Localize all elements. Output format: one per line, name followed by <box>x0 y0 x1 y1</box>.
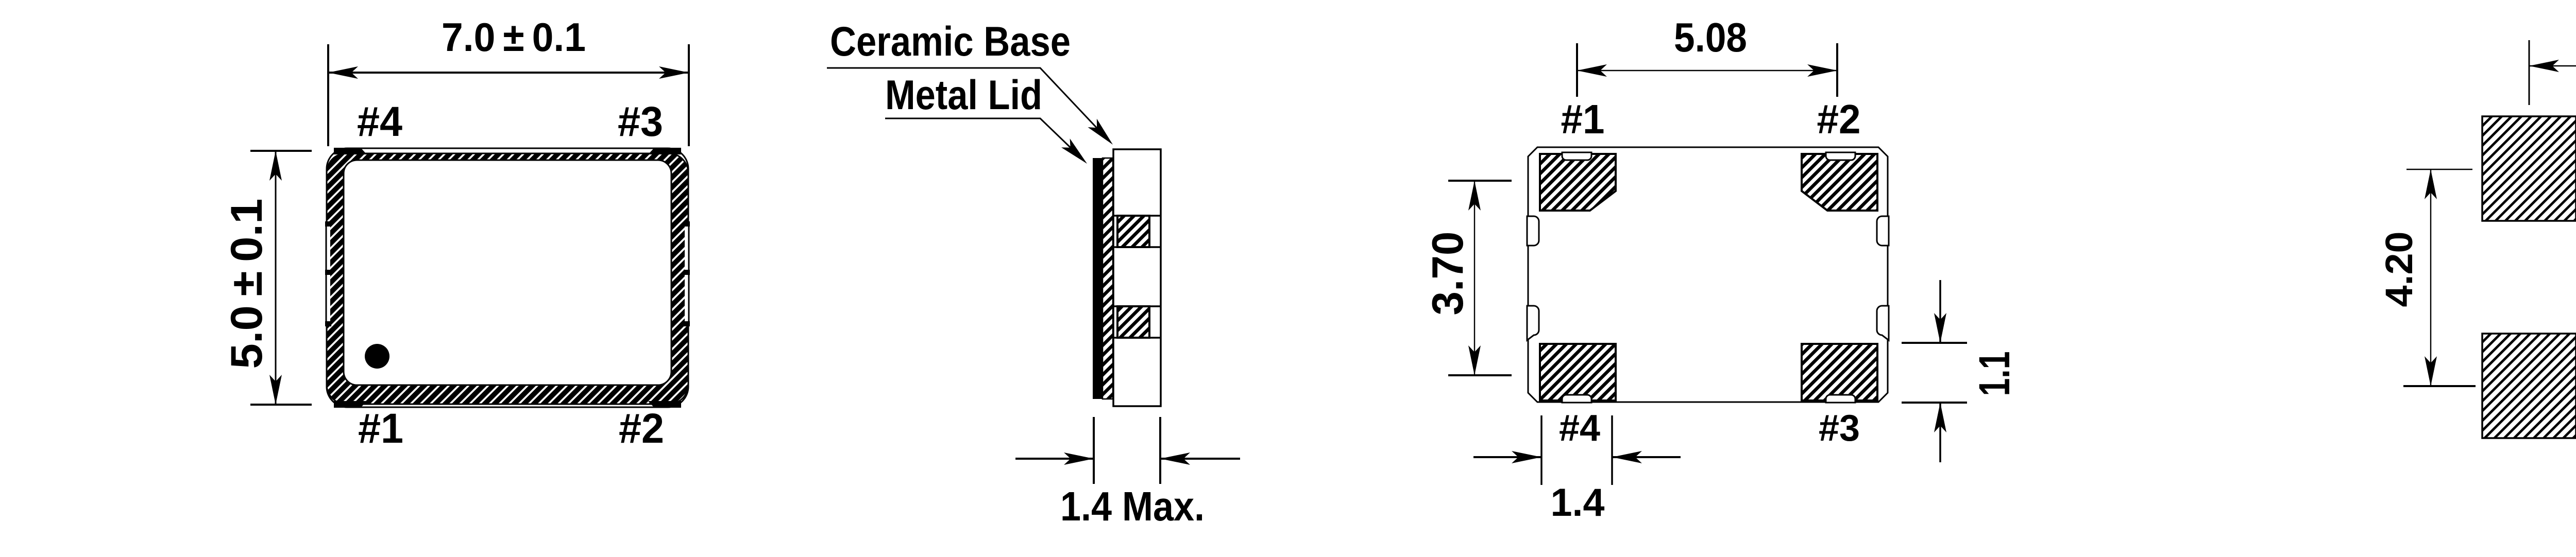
svg-text:4.20: 4.20 <box>2378 232 2420 307</box>
metallized lid border band (hatched) <box>327 153 688 404</box>
dimension 5.0±0.1 extension tick top <box>250 150 312 152</box>
right edge castellation recess <box>685 227 691 321</box>
dimension 5.08 line <box>1577 70 1837 71</box>
dimension 4.20 extension tick bottom <box>2403 385 2476 387</box>
right edge castellation notch upper <box>1877 216 1889 246</box>
dimension 7.0±0.1 extension line right <box>688 44 690 146</box>
svg-text:#4: #4 <box>1559 408 1600 449</box>
svg-text:#2: #2 <box>1817 96 1861 142</box>
left edge castellation notch lower <box>1527 306 1539 340</box>
package body outline (bottom view) <box>1528 147 1888 402</box>
lid seam ear, bottom-right corner <box>648 401 681 408</box>
svg-text:5.08: 5.08 <box>1674 14 1747 60</box>
dimension 5.08 line <box>2529 65 2576 66</box>
dimension 1.1 extension line bottom <box>1902 402 1967 404</box>
left edge castellation notch upper <box>1527 216 1539 246</box>
dimension 1.4 extension line right <box>1611 415 1613 485</box>
dimension 3.70 extension tick top <box>1448 180 1512 182</box>
pad #3 bottom castellation notch <box>1826 395 1855 403</box>
pad #1 top castellation notch <box>1562 152 1591 160</box>
svg-text:3.70: 3.70 <box>1423 232 1472 316</box>
pin 1 index dot <box>365 344 389 369</box>
svg-text:5.0 ± 0.1: 5.0 ± 0.1 <box>222 199 272 369</box>
ceramic seal ring (hatched strip) <box>1103 158 1113 399</box>
svg-text:#3: #3 <box>1819 408 1860 449</box>
dimension 5.08 extension line left <box>1576 43 1578 97</box>
land pad top-left <box>2482 116 2576 221</box>
pad #4 (bottom-left, hatched) <box>1540 344 1616 401</box>
svg-text:#1: #1 <box>358 405 403 452</box>
ceramic base column <box>1113 149 1161 406</box>
pad #2 top castellation notch <box>1826 152 1855 160</box>
dimension 1.1 arrows (outside) <box>1939 280 1941 343</box>
dimension 1.4 extension line left <box>1540 415 1543 485</box>
right edge castellation notch lower <box>1877 306 1889 340</box>
dimension 1.4 arrows (outside) <box>1473 456 1541 458</box>
leader line Metal Lid <box>885 118 1083 160</box>
leader line Ceramic Base <box>827 68 1109 141</box>
dimension 7.0±0.1 line <box>328 72 689 74</box>
pad #2 (top-right, hatched, chamfered) <box>1802 154 1877 211</box>
dimension 3.70 line <box>1474 181 1475 375</box>
dimension 4.20 extension tick top <box>2406 169 2472 170</box>
castellation pad upper (section) <box>1113 215 1161 217</box>
svg-text:Ceramic Base: Ceramic Base <box>830 19 1071 65</box>
dimension 1.4 Max extension line right <box>1159 417 1161 484</box>
dimension 5.0±0.1 line <box>275 151 277 405</box>
pad #4 bottom castellation notch <box>1562 395 1591 403</box>
left edge castellation recess <box>324 227 330 321</box>
dimension 5.08 extension line right <box>1836 43 1838 97</box>
svg-text:#4: #4 <box>357 98 402 145</box>
dimension 1.1 extension line top <box>1902 342 1967 344</box>
metal lid (solid bar) <box>1093 158 1103 399</box>
dimension 5.0±0.1 extension tick bottom <box>250 404 312 406</box>
pad #1 (top-left, hatched, chamfered) <box>1540 154 1616 211</box>
dimension 5.08 extension line left <box>2529 40 2530 105</box>
lid seam ear, top-left corner <box>334 148 367 154</box>
land pad bottom-left <box>2482 334 2576 438</box>
dimension 4.20 line <box>2430 169 2431 386</box>
svg-text:#3: #3 <box>618 98 663 145</box>
svg-text:1.1: 1.1 <box>1970 352 2019 396</box>
svg-text:#2: #2 <box>619 405 664 452</box>
castellation pad lower (section) <box>1113 305 1161 307</box>
dimension 7.0±0.1 extension line left <box>327 44 329 146</box>
lid seam ear, top-right corner <box>648 148 681 154</box>
svg-text:1.4 Max.: 1.4 Max. <box>1060 483 1205 529</box>
package body outline (top view) <box>327 148 688 407</box>
svg-text:7.0 ± 0.1: 7.0 ± 0.1 <box>442 14 586 60</box>
svg-text:1.4: 1.4 <box>1551 481 1605 525</box>
dimension 1.4 Max arrows (outside) <box>1015 458 1094 460</box>
svg-text:#1: #1 <box>1561 96 1605 142</box>
dimension 1.4 Max extension line left <box>1093 417 1095 484</box>
pad #3 (bottom-right, hatched) <box>1802 344 1877 401</box>
lid seam ear, bottom-left corner <box>334 401 367 408</box>
svg-text:Metal Lid: Metal Lid <box>885 72 1042 118</box>
dimension 3.70 extension tick bottom <box>1448 374 1512 376</box>
